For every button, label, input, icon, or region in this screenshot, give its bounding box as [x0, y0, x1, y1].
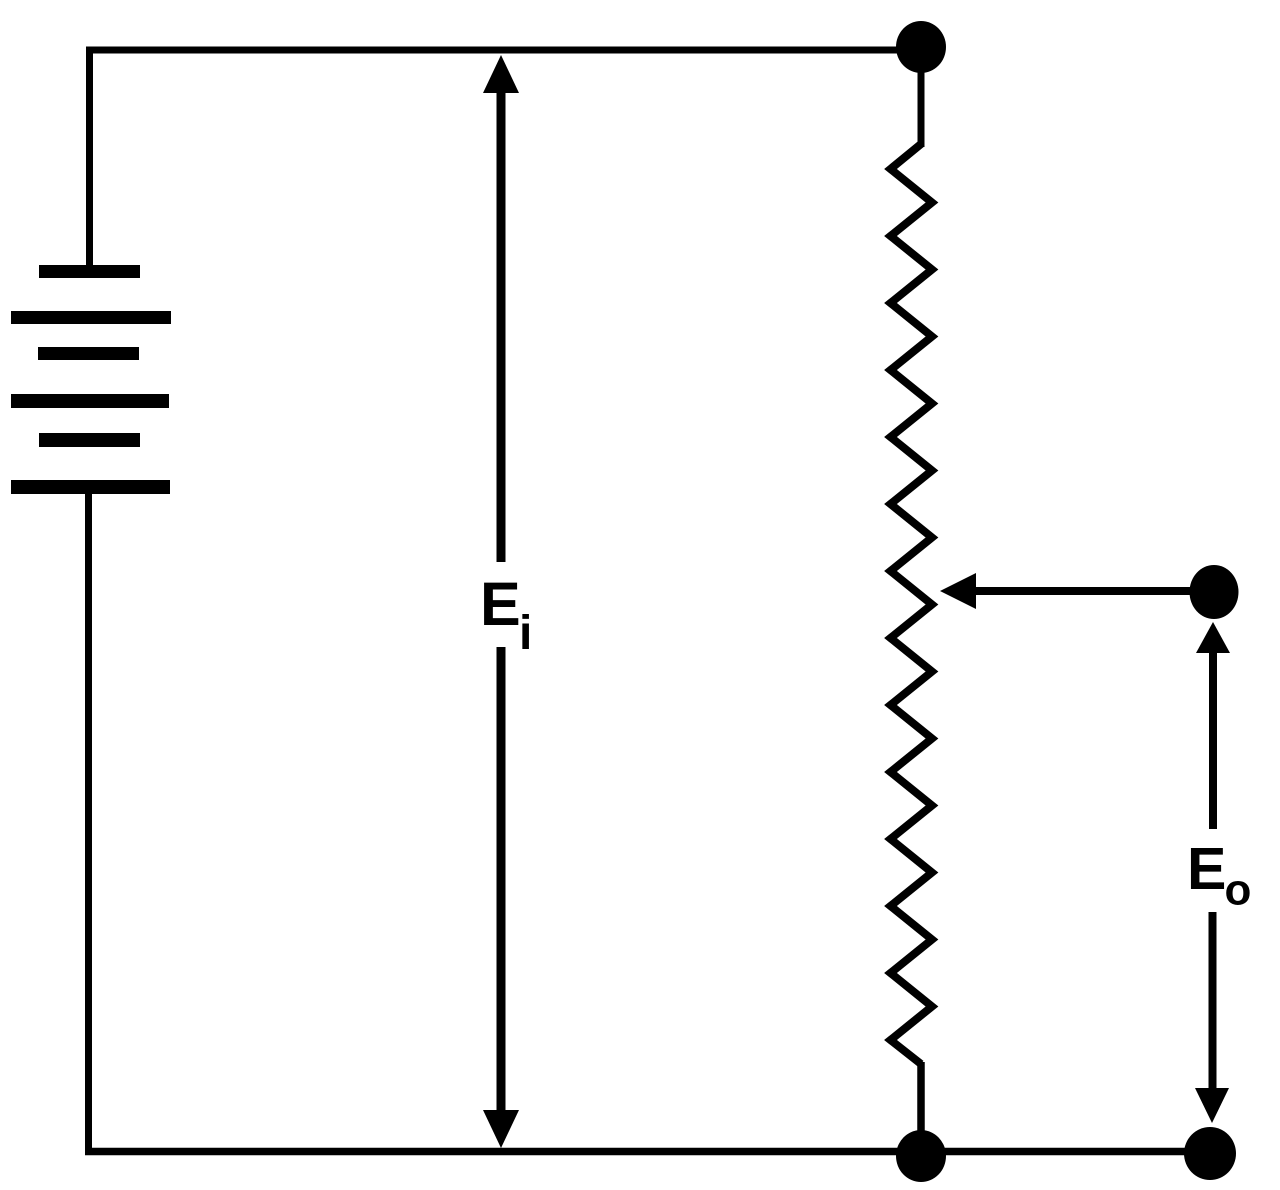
- battery cell plate 5 (short): [39, 433, 140, 447]
- Eo arrowhead up: [1196, 622, 1230, 653]
- battery cell plate 3 (short): [38, 347, 139, 360]
- measurement arrow Ei (double-headed): [483, 55, 519, 1148]
- Eo arrowhead down: [1195, 1088, 1229, 1123]
- wire left vertical lower (battery - plate to bottom): [85, 487, 92, 1151]
- wire top node to resistor: [918, 47, 925, 147]
- Eo arrow shaft lower: [1209, 912, 1217, 1090]
- wire bottom horizontal: [85, 1148, 1213, 1156]
- battery cell plate 1 (short): [39, 265, 140, 278]
- node wiper output (right middle): [1190, 565, 1239, 619]
- wire wiper horizontal: [974, 587, 1213, 595]
- battery cell plate 4 (long): [11, 394, 169, 408]
- Ei arrowhead down: [483, 1110, 519, 1148]
- wire top horizontal: [86, 47, 921, 54]
- resistor (potentiometer element): [891, 144, 933, 1064]
- battery cell plate 6 (long): [11, 480, 170, 494]
- node bottom-left junction: [896, 1130, 946, 1182]
- node top junction: [896, 21, 946, 73]
- wire resistor bottom lead: [917, 1062, 925, 1150]
- wire left vertical upper (to battery + plate): [86, 47, 93, 272]
- wiper arrowhead: [940, 573, 976, 609]
- node output bottom-right: [1184, 1127, 1236, 1180]
- Ei arrowhead up: [483, 55, 519, 93]
- Eo arrow shaft upper: [1209, 650, 1217, 829]
- measurement arrow Eo (double-headed): [1195, 622, 1230, 1123]
- Ei arrow shaft lower: [497, 647, 506, 1113]
- Ei arrow shaft upper: [497, 90, 506, 562]
- battery cell plate 2 (long): [11, 311, 171, 324]
